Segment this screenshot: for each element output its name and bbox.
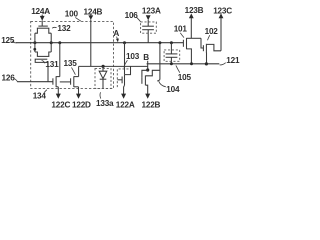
svg-text:123C: 123C	[213, 6, 232, 15]
label 105	[178, 73, 192, 82]
signal arrow 122B (down)	[145, 94, 150, 99]
wire 126 input horizontal	[17, 81, 53, 83]
leader for 100	[75, 17, 81, 21]
svg-text:122D: 122D	[72, 100, 91, 109]
label 123B	[185, 6, 204, 15]
wire 135 drain up to latch wire	[78, 66, 80, 76]
svg-text:122C: 122C	[51, 100, 70, 109]
wire 135 source down	[78, 87, 80, 94]
leader arrow for A	[116, 37, 119, 40]
label 133a	[96, 99, 114, 108]
leader for 132	[52, 26, 56, 29]
svg-text:103: 103	[126, 52, 140, 61]
transistor 103 right (latch)	[141, 77, 143, 84]
svg-text:124B: 124B	[84, 7, 103, 16]
dashed box 100	[31, 21, 114, 88]
svg-text:122B: 122B	[142, 100, 161, 109]
transistor 101	[182, 40, 184, 47]
wire 134 source down	[57, 87, 59, 94]
label 131	[45, 60, 59, 69]
svg-text:104: 104	[166, 85, 180, 94]
label 123A	[142, 6, 161, 15]
label 103	[126, 52, 140, 61]
node dot at TG right rail	[50, 41, 53, 44]
wire node A main horizontal	[16, 42, 183, 44]
label B	[143, 53, 149, 62]
signal arrow 124B (down)	[90, 15, 92, 16]
label 132	[57, 24, 71, 33]
wire from node A down into latch block	[159, 43, 161, 80]
label 122D	[72, 100, 91, 109]
node dot A to cap 105	[170, 41, 173, 44]
signal arrow 124A (down)	[41, 15, 43, 16]
signal arrow 123B (up)	[189, 13, 194, 18]
label 122A	[116, 100, 135, 109]
wire latch left drain up to node A	[124, 43, 126, 75]
svg-text:106: 106	[125, 11, 139, 20]
wire 101 drain to 102 gate	[201, 38, 203, 48]
wire B label down to latch node	[147, 61, 149, 71]
label 126	[2, 74, 16, 83]
wire branch to gate of 135	[60, 81, 71, 83]
svg-text:135: 135	[64, 59, 78, 68]
leader for 106	[137, 17, 141, 22]
label 104	[166, 85, 180, 94]
node dot 102 source on bus	[205, 62, 208, 65]
svg-text:A: A	[113, 29, 119, 38]
leader for 105	[176, 65, 180, 72]
leader for 104	[159, 81, 166, 87]
svg-text:123B: 123B	[185, 6, 204, 15]
svg-text:121: 121	[226, 56, 240, 65]
signal arrow 122A (down)	[121, 94, 126, 99]
leader for 131	[42, 60, 45, 63]
svg-text:123A: 123A	[142, 6, 161, 15]
transistor 135	[70, 78, 72, 84]
svg-text:101: 101	[174, 25, 188, 34]
transmission gate right rail	[50, 33, 52, 52]
transistor 103 left	[117, 79, 122, 81]
dashed box around 105	[164, 50, 180, 61]
junction dot on left rail	[33, 48, 36, 51]
node dot B	[146, 68, 149, 71]
label 106	[125, 11, 139, 20]
node dot A to latch left drain	[123, 41, 126, 44]
transmission gate left rail	[34, 33, 36, 52]
label A	[113, 29, 119, 38]
label 125	[1, 36, 15, 45]
capacitor 106	[147, 20, 149, 26]
svg-text:105: 105	[178, 73, 192, 82]
label 134	[33, 91, 47, 100]
leader for 103	[124, 60, 128, 67]
leader for 135	[72, 67, 76, 74]
label 122B	[142, 100, 161, 109]
transistor 102	[202, 45, 204, 51]
wire node B to gate of latch right transistor	[142, 70, 148, 77]
dashed box around 106	[141, 22, 157, 33]
svg-text:134: 134	[33, 91, 47, 100]
transistor 131 (bottom of transmission gate)	[35, 52, 38, 56]
label 124B	[84, 7, 103, 16]
node dot at 134 drain branch	[58, 41, 61, 44]
svg-text:126: 126	[2, 74, 16, 83]
svg-text:131: 131	[45, 60, 59, 69]
wire 124B vertical to latch node	[90, 20, 92, 67]
label 124A	[31, 7, 50, 16]
wire latch block lower right hook	[157, 80, 160, 81]
svg-text:132: 132	[57, 24, 71, 33]
gate wire of 131 down to 126 line	[35, 59, 48, 81]
leader for 102	[208, 35, 210, 40]
node dot at TG left rail	[33, 41, 36, 44]
signal arrow 123A (down)	[146, 15, 151, 20]
leader for 134	[44, 90, 47, 93]
svg-text:122A: 122A	[116, 100, 135, 109]
diode 133a	[102, 66, 104, 71]
svg-text:100: 100	[65, 10, 79, 19]
node dot cap105 on bus	[170, 62, 173, 65]
node dot 101 source on bus	[190, 62, 193, 65]
wire latch cross branch	[125, 66, 131, 74]
label 100	[65, 10, 79, 19]
latch wire horizontal	[79, 65, 148, 67]
bus wire node B horizontal	[147, 63, 220, 65]
leader for 101	[180, 33, 184, 38]
label 121	[226, 56, 240, 65]
node dot on latch wire	[102, 65, 105, 68]
dashed box around 133a	[95, 69, 111, 89]
dashed box edge around 103	[117, 69, 128, 88]
label 102	[205, 27, 219, 36]
svg-text:125: 125	[1, 36, 15, 45]
leader for 121	[220, 63, 226, 65]
label 135	[64, 59, 78, 68]
transistor 132 (top of transmission gate)	[38, 25, 47, 27]
signal arrow 122C (down)	[56, 94, 61, 99]
signal arrow 123C (up)	[219, 13, 224, 18]
transistor 134	[52, 78, 54, 84]
wire 134 drain up to node A	[59, 43, 61, 77]
leader for 125	[12, 41, 17, 43]
svg-text:102: 102	[205, 27, 219, 36]
label 123C	[213, 6, 232, 15]
signal arrow 122D (down)	[76, 94, 81, 99]
leader for 126	[14, 79, 18, 82]
label 101	[174, 25, 188, 34]
svg-text:133a: 133a	[96, 99, 114, 108]
node dot A to latch block	[158, 41, 161, 44]
label 122C	[51, 100, 70, 109]
svg-text:124A: 124A	[31, 7, 50, 16]
leader for 133a	[99, 92, 102, 98]
svg-text:B: B	[143, 53, 149, 62]
capacitor 105	[170, 43, 172, 54]
